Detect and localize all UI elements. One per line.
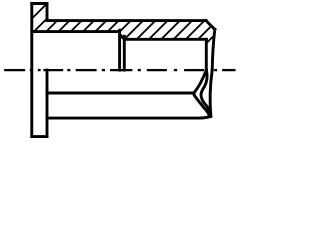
bore step line 1 (118, 30, 121, 70)
body outer bottom line with end fillet (47, 117, 210, 119)
flange right edge lower (46, 70, 49, 137)
closed end inner contour curve (201, 70, 210, 114)
hex body edge line (lower half) (47, 92, 193, 95)
hatching (section lines) (3, 0, 264, 48)
part outlines (32, 4, 215, 137)
thread minor line (124, 38, 206, 41)
flange left edge (30, 4, 33, 137)
bore step chamfer (120, 35, 125, 40)
bore step line 2 (thread start) (123, 36, 126, 70)
flange bottom edge (32, 135, 47, 138)
bore line (counterbore) (32, 30, 120, 33)
right end face (upper half) (212, 29, 215, 70)
right end chamfer (206, 21, 215, 30)
flange right edge upper (46, 4, 49, 21)
closed end outer contour curve (194, 70, 210, 116)
blind end inner wall (205, 39, 208, 70)
centerline (axis, dash-dot) (4, 69, 235, 71)
rivet nut technical drawing, half-section (0, 0, 239, 143)
flange top edge (32, 2, 47, 5)
right end face (lower half) (210, 70, 212, 116)
body outer top line (47, 19, 206, 22)
